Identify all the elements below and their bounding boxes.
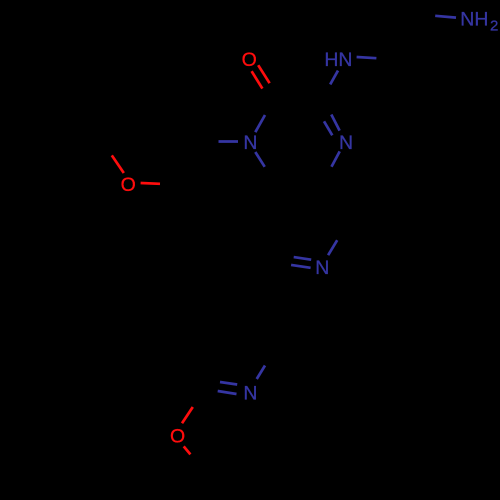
bond N1' to C6' (blue half) xyxy=(257,366,265,380)
C7=N6 double bond (blue halves) xyxy=(291,257,311,268)
svg-text:N: N xyxy=(315,257,329,279)
bond N4 to C4a (blue half) xyxy=(332,151,340,166)
bond NH2 to chain CH2 (blue half) xyxy=(435,16,456,18)
svg-text:N: N xyxy=(243,383,257,405)
svg-text:N: N xyxy=(339,132,353,154)
bond O to CH3 (red half) xyxy=(112,155,124,173)
bond HN to C3 (blue half) xyxy=(330,71,338,85)
svg-text:O: O xyxy=(170,426,185,448)
bond O to C2' ring (red half) xyxy=(182,407,193,423)
bond N6 to C5 (blue half) xyxy=(328,240,337,255)
svg-text:N: N xyxy=(243,132,257,154)
C3=N4 double bond (blue halves) xyxy=(324,115,340,136)
bond HN to chain CH2 (blue half) xyxy=(357,57,377,58)
svg-text:HN: HN xyxy=(324,49,352,71)
bond N1 to C8a (blue half) xyxy=(255,152,264,167)
svg-text:O: O xyxy=(242,49,257,71)
C2=O double bond (red halves) xyxy=(252,65,270,88)
C2'=N1' double bond (blue halves) xyxy=(218,382,238,394)
bond O to CH3 methyl (red half) xyxy=(184,446,191,454)
bond O to CH2 (red half) xyxy=(141,182,160,186)
svg-text:O: O xyxy=(121,174,136,196)
bond N1 to C2 carbonyl (blue half) xyxy=(255,115,265,132)
bond N1 to methoxyethyl CH2 (blue half) xyxy=(219,140,239,143)
